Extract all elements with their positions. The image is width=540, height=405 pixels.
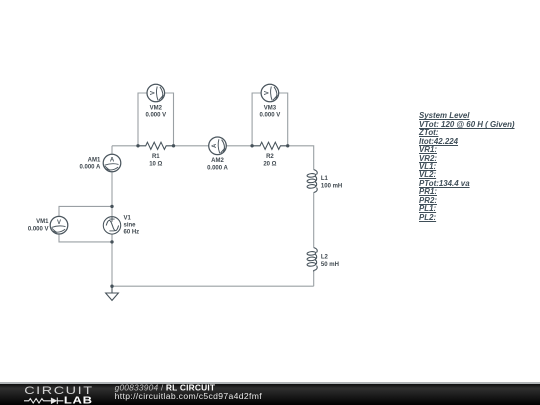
svg-text:V: V: [265, 91, 271, 95]
ammeter AM1: [103, 154, 121, 172]
svg-text:V: V: [57, 220, 61, 226]
voltmeter VM3: [261, 84, 279, 102]
svg-text:V: V: [150, 91, 156, 95]
svg-text:sine: sine: [124, 223, 137, 229]
svg-text:V1: V1: [124, 216, 132, 222]
wire right vertical L2 to bottom: [313, 272, 315, 287]
svg-text:AM1: AM1: [88, 158, 101, 164]
junction node ground: [110, 285, 113, 288]
svg-text:0.000 V: 0.000 V: [260, 113, 281, 119]
voltage source V1: [103, 217, 120, 235]
junction node R2 left / VM3 tap: [250, 144, 253, 147]
CircuitLab logo: [24, 383, 94, 405]
svg-text:60 Hz: 60 Hz: [124, 230, 140, 236]
svg-text:http://circuitlab.com/c5cd97a4: http://circuitlab.com/c5cd97a4d2fmf: [115, 391, 263, 401]
wire bottom: [112, 285, 314, 287]
svg-text:0.000 A: 0.000 A: [207, 165, 228, 171]
voltmeter VM1: [50, 216, 68, 234]
svg-text:L1: L1: [321, 176, 329, 182]
svg-text:0.000 A: 0.000 A: [80, 165, 101, 171]
voltmeter VM2: [147, 84, 165, 102]
svg-text:50 mH: 50 mH: [321, 262, 339, 268]
wire left vertical corner to AM1: [111, 146, 113, 154]
svg-text:A: A: [212, 143, 218, 148]
ground: [106, 286, 119, 300]
junction node R1 right / VM2 tap: [172, 144, 175, 147]
junction node VM1 bottom tap: [110, 240, 113, 243]
svg-text:L2: L2: [321, 255, 329, 261]
svg-text:20 Ω: 20 Ω: [263, 162, 276, 168]
wire AM1 to V1: [111, 172, 113, 217]
resistor R2: [252, 142, 288, 149]
ammeter AM2: [209, 137, 227, 155]
wire R2 to top-right corner and down: [288, 146, 314, 170]
inductor L2: [307, 248, 317, 272]
svg-text:A: A: [110, 158, 115, 164]
resistor R1: [138, 142, 174, 149]
labels: [28, 106, 342, 268]
junction node R1 left / VM2 tap: [136, 144, 139, 147]
footer bar: [0, 384, 540, 405]
wire R1 to AM2: [174, 145, 209, 147]
svg-text:100 mH: 100 mH: [321, 183, 342, 189]
svg-text:R1: R1: [152, 154, 160, 160]
junction node VM1 top tap: [110, 205, 113, 208]
svg-text:VM3: VM3: [264, 106, 277, 112]
separator line above footer: [0, 382, 540, 383]
svg-text:AM2: AM2: [211, 158, 224, 164]
wire AM2 to R2: [226, 145, 252, 147]
wire VM1 branch: [59, 206, 112, 242]
wire V1 to ground junction: [111, 234, 113, 286]
svg-text:0.000 V: 0.000 V: [28, 226, 49, 232]
wire right vertical between L1 and L2: [313, 193, 315, 248]
inductor L1: [307, 170, 317, 193]
svg-text:LAB: LAB: [64, 393, 93, 405]
svg-text:VM1: VM1: [36, 219, 49, 225]
svg-text:10 Ω: 10 Ω: [149, 162, 162, 168]
annotation text block: [419, 112, 515, 222]
junction node R2 right / VM3 tap: [286, 144, 289, 147]
wire VM3 branch: [252, 93, 288, 146]
wire top-left corner to R1: [112, 145, 138, 147]
svg-text:0.000 V: 0.000 V: [145, 113, 166, 119]
svg-text:VM2: VM2: [150, 106, 163, 112]
svg-text:R2: R2: [266, 154, 274, 160]
wire VM2 branch: [138, 93, 174, 146]
